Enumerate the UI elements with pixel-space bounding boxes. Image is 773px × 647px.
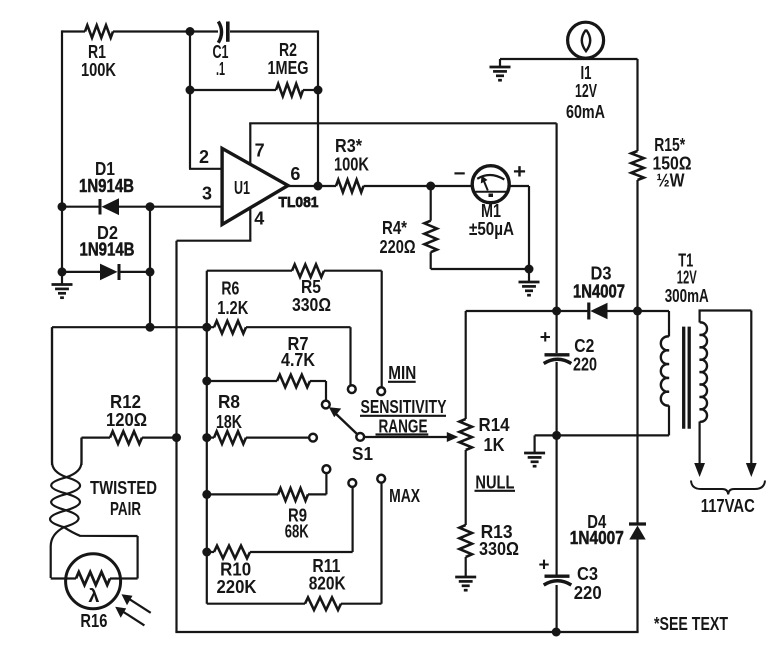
svg-text:TL081: TL081	[279, 194, 319, 211]
svg-text:R14: R14	[479, 415, 510, 435]
svg-text:R5: R5	[301, 277, 321, 297]
svg-text:R16: R16	[80, 611, 107, 631]
svg-text:R15*: R15*	[654, 135, 685, 155]
svg-text:6: 6	[290, 164, 300, 184]
svg-text:*SEE TEXT: *SEE TEXT	[654, 614, 728, 634]
svg-text:68K: 68K	[285, 521, 309, 541]
svg-text:R12: R12	[110, 392, 141, 412]
svg-text:4.7K: 4.7K	[281, 350, 315, 370]
svg-text:3: 3	[202, 183, 212, 203]
svg-text:1N914B: 1N914B	[79, 176, 134, 196]
svg-text:NULL: NULL	[475, 472, 514, 492]
svg-text:1K: 1K	[484, 435, 505, 455]
svg-text:12V: 12V	[677, 267, 697, 287]
svg-text:18K: 18K	[216, 412, 242, 432]
svg-text:220: 220	[573, 354, 597, 374]
svg-text:+: +	[539, 555, 550, 575]
svg-text:TWISTED: TWISTED	[90, 478, 157, 498]
svg-text:1N4007: 1N4007	[570, 528, 624, 548]
svg-text:M1: M1	[481, 201, 501, 221]
svg-text:λ: λ	[88, 586, 99, 606]
svg-text:820K: 820K	[309, 574, 346, 594]
svg-text:2: 2	[199, 147, 209, 167]
svg-text:1.2K: 1.2K	[217, 298, 248, 318]
svg-text:220: 220	[574, 583, 602, 603]
svg-text:1N914B: 1N914B	[80, 240, 135, 260]
svg-text:R4*: R4*	[382, 218, 407, 238]
svg-text:1MEG: 1MEG	[268, 58, 309, 78]
svg-text:R1: R1	[88, 42, 106, 62]
svg-text:R2: R2	[279, 40, 297, 60]
svg-text:100K: 100K	[81, 60, 116, 80]
svg-text:117VAC: 117VAC	[701, 496, 755, 516]
svg-text:−: −	[454, 163, 466, 185]
svg-text:C2: C2	[574, 336, 594, 356]
svg-text:C3: C3	[577, 564, 598, 584]
svg-text:120Ω: 120Ω	[106, 410, 147, 430]
svg-text:.1: .1	[216, 59, 225, 79]
svg-text:100K: 100K	[334, 155, 369, 175]
svg-text:220Ω: 220Ω	[380, 237, 416, 257]
svg-text:1N4007: 1N4007	[573, 281, 625, 301]
svg-text:R3*: R3*	[335, 136, 362, 156]
svg-text:+: +	[513, 161, 526, 183]
svg-text:SENSITIVITY: SENSITIVITY	[361, 397, 447, 417]
svg-text:PAIR: PAIR	[110, 499, 141, 519]
svg-text:S1: S1	[352, 444, 373, 464]
svg-text:300mA: 300mA	[665, 286, 709, 306]
svg-text:R6: R6	[221, 279, 239, 299]
svg-text:MAX: MAX	[389, 486, 420, 506]
svg-text:½W: ½W	[657, 171, 685, 191]
svg-text:220K: 220K	[217, 577, 257, 597]
svg-text:U1: U1	[234, 178, 250, 198]
svg-text:MIN: MIN	[388, 363, 416, 383]
svg-text:12V: 12V	[575, 81, 597, 101]
svg-text:+: +	[540, 327, 551, 347]
svg-text:330Ω: 330Ω	[479, 539, 519, 559]
svg-text:I1: I1	[581, 63, 592, 83]
svg-text:7: 7	[255, 141, 265, 161]
svg-text:330Ω: 330Ω	[292, 295, 331, 315]
svg-text:R8: R8	[218, 392, 240, 412]
svg-text:4: 4	[254, 209, 264, 229]
svg-text:±50µA: ±50µA	[469, 219, 514, 239]
svg-text:60mA: 60mA	[566, 102, 605, 122]
